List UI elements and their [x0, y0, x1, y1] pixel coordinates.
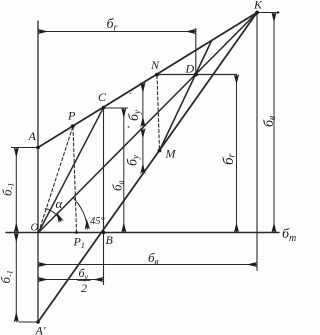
C horizontal tick [104, 107, 128, 109]
svg-text:O: O [31, 222, 39, 234]
inner dimension sigma_t (yield line to axis) [236, 75, 238, 233]
vertical C-B extended below axis [103, 108, 105, 285]
svg-text:бr: бr [221, 153, 238, 165]
point P [71, 124, 75, 128]
point P1 [75, 231, 78, 234]
point C [102, 106, 106, 110]
svg-text:A: A [28, 129, 37, 143]
dimension sigma_a (C tick to axis) [123, 108, 125, 233]
point N [155, 73, 159, 77]
svg-text:бу: бу [126, 155, 141, 166]
point K [255, 11, 259, 15]
point B [102, 231, 106, 235]
svg-text:бr: бr [107, 17, 118, 34]
svg-text:бт: бт [282, 227, 296, 244]
vertical extension above D [195, 29, 197, 75]
svg-text:K: K [253, 0, 263, 12]
left lower dimension sigma_-1 [15, 233, 17, 323]
angle arc 45 [74, 199, 88, 230]
speck [128, 126, 130, 128]
dashed vertical P-P1 [73, 127, 77, 231]
vertical below K [256, 13, 258, 271]
svg-text:2: 2 [81, 281, 87, 295]
svg-text:P1: P1 [73, 235, 85, 251]
svg-text:б-1: б-1 [0, 183, 16, 196]
top dimension line sigma_g (O to D vertical) [38, 31, 196, 33]
svg-text:B: B [106, 233, 114, 247]
svg-text:N: N [150, 58, 160, 72]
svg-text:C: C [98, 90, 107, 104]
axis sigma_m (horizontal) [6, 232, 279, 234]
svg-text:б-1: б-1 [0, 270, 15, 283]
speck [130, 93, 132, 95]
point A' [36, 320, 40, 324]
svg-text:M: M [165, 147, 177, 161]
svg-text:α: α [56, 196, 64, 211]
line A-K (upper limit line) [38, 13, 257, 148]
svg-text:бу: бу [127, 110, 142, 121]
line M-D extended to AK line [160, 40, 212, 150]
tick end of K horizontal [277, 11, 279, 13]
svg-text:P: P [67, 109, 76, 123]
horizontal from K to right [257, 12, 279, 14]
svg-text:A': A' [35, 324, 46, 335]
bottom dimension sigma_v (O to K vertical) [38, 264, 257, 266]
tick at A' level [20, 321, 39, 323]
line A'-K (lower limit line through B and M) [38, 13, 257, 323]
line O-C [39, 108, 104, 233]
point M [158, 149, 162, 153]
dimension sigma_u lower (OK line to A'K line) [142, 129, 144, 174]
svg-text:45°: 45° [90, 216, 106, 227]
tick at A level [12, 147, 39, 149]
line O-K (45 degree line through D) [39, 13, 258, 233]
angle arc alpha [45, 209, 61, 222]
dimension sigma_u upper (AK line to OK line) [142, 83, 144, 127]
bottom dimension sigma_u/2 (O to B vertical) [38, 279, 104, 281]
point A [36, 146, 40, 150]
svg-text:ба: ба [110, 180, 126, 191]
dashed ray O-P [39, 126, 74, 232]
svg-text:бу: бу [79, 266, 89, 282]
svg-text:бв: бв [262, 115, 278, 127]
svg-text:D: D [185, 62, 195, 76]
dashed vertical N-M [157, 76, 160, 150]
yield horizontal line N-D [157, 74, 237, 76]
left upper dimension sigma_-1 [15, 148, 17, 233]
right dimension sigma_v (full height) [273, 13, 275, 233]
vertical axis through O down to A' [37, 21, 39, 322]
point D [194, 73, 198, 77]
svg-text:бв: бв [148, 250, 159, 268]
